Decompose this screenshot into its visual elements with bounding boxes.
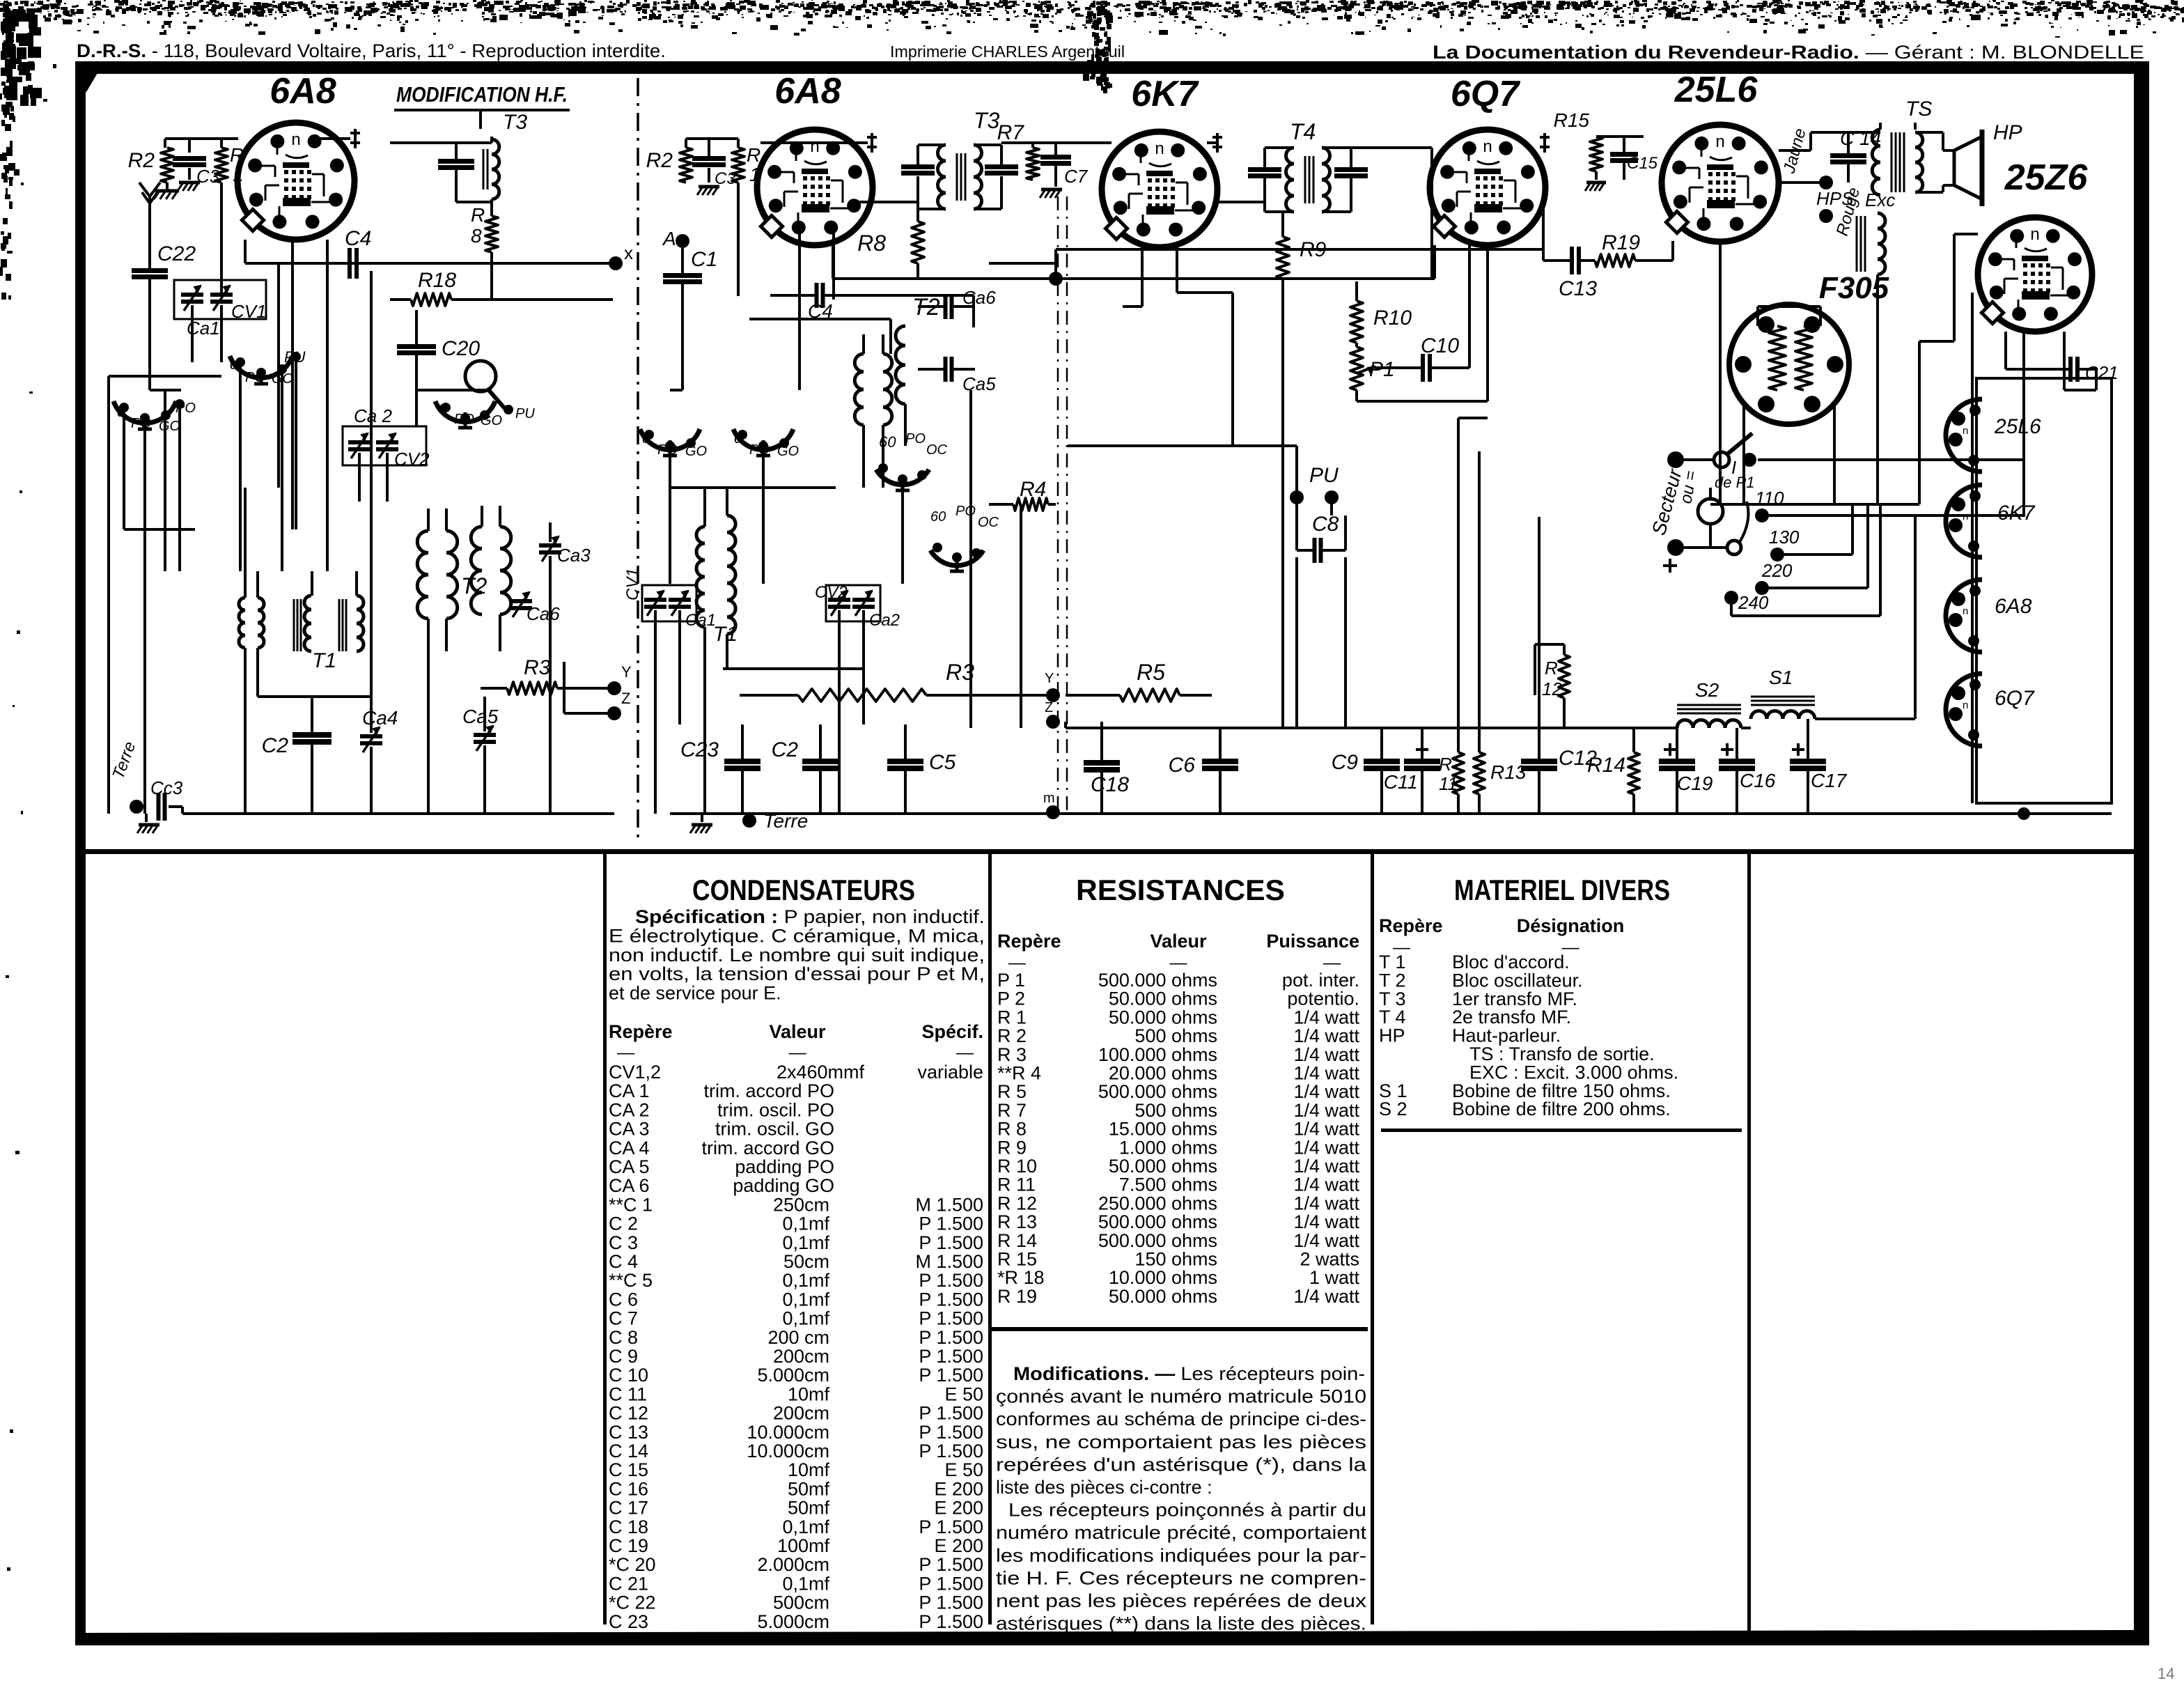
svg-text:P 1.500: P 1.500 <box>919 1308 983 1329</box>
heater tick node (modif 6A8) <box>354 129 357 148</box>
svg-text:n: n <box>1715 132 1724 151</box>
svg-text:100mf: 100mf <box>777 1535 830 1556</box>
svg-text:—: — <box>617 1043 634 1062</box>
svg-text:CV2: CV2 <box>394 449 430 470</box>
svg-text:6K7: 6K7 <box>1131 74 1199 114</box>
svg-text:n: n <box>1963 605 1968 617</box>
bottom bus (main) <box>670 812 2112 815</box>
svg-text:MODIFICATION H.F.: MODIFICATION H.F. <box>396 82 568 107</box>
svg-text:T1: T1 <box>312 649 336 672</box>
svg-text:R 8: R 8 <box>997 1119 1027 1140</box>
svg-text:C23: C23 <box>680 738 719 761</box>
wire 6Q7 grid down <box>1468 245 1471 368</box>
svg-text:50mf: 50mf <box>788 1478 830 1499</box>
svg-text:et de service pour E.: et de service pour E. <box>609 983 781 1004</box>
wire under T2 <box>862 425 865 488</box>
tube U1m 6A8 (modification) <box>237 123 354 240</box>
svg-text:P 1.500: P 1.500 <box>919 1422 983 1443</box>
svg-text:HP: HP <box>1993 121 2022 144</box>
svg-text:PO: PO <box>905 431 926 447</box>
wire antenna to switch <box>670 389 682 391</box>
svg-text:n: n <box>1963 425 1968 437</box>
dash-dot chassis line B <box>1066 196 1068 811</box>
svg-text:D.-R.-S. - 118, Boulevard Volt: D.-R.-S. - 118, Boulevard Voltaire, Pari… <box>77 40 666 61</box>
capacitor T4 left <box>1248 167 1281 172</box>
svg-text:220: 220 <box>1761 560 1793 581</box>
svg-text:Spécif.: Spécif. <box>921 1021 983 1042</box>
svg-text:Ca 2: Ca 2 <box>354 405 392 426</box>
svg-text:50.000 ohms: 50.000 ohms <box>1109 1156 1217 1177</box>
divider between schematic and parts list <box>78 849 2134 854</box>
wire anode feed y374 <box>1056 248 1543 251</box>
capacitor T4 right <box>1334 167 1368 172</box>
trimmer Ca2 with CV2 <box>343 426 426 465</box>
svg-text:trim. oscil. GO: trim. oscil. GO <box>715 1119 834 1140</box>
table rule left of CONDENSATEURS <box>603 854 607 1624</box>
svg-text:C15: C15 <box>1627 154 1658 173</box>
svg-text:50.000 ohms: 50.000 ohms <box>1109 1007 1217 1027</box>
tube U2 6K7 <box>1102 132 1217 247</box>
panel heater line <box>1971 378 1974 803</box>
svg-text:C7: C7 <box>1064 166 1089 187</box>
wire 6Q7 cathode long drops <box>1457 418 1460 752</box>
svg-text:R: R <box>230 144 244 166</box>
svg-text:RESISTANCES: RESISTANCES <box>1076 874 1285 906</box>
svg-text:La Documentation du Revendeur-: La Documentation du Revendeur-Radio. — G… <box>1433 42 2144 63</box>
svg-text:130: 130 <box>1769 527 1800 548</box>
wire R15 top <box>1596 135 1644 138</box>
svg-text:C 14: C 14 <box>609 1441 648 1461</box>
svg-text:CA 4: CA 4 <box>609 1138 650 1158</box>
svg-text:sus, ne comportaient pas les p: sus, ne comportaient pas les pièces <box>996 1432 1366 1452</box>
capacitor C21 <box>2068 357 2073 382</box>
svg-text:C 6: C 6 <box>609 1289 638 1310</box>
wire grid bus top (modif) <box>165 137 238 140</box>
wire R8 bottom <box>490 252 493 300</box>
svg-text:200 cm: 200 cm <box>767 1327 829 1348</box>
wire coupling run y458 <box>749 318 891 320</box>
svg-text:R 15: R 15 <box>997 1249 1037 1270</box>
svg-text:Ca6: Ca6 <box>526 603 560 624</box>
svg-text:C 7: C 7 <box>609 1308 638 1329</box>
dash-dot chassis line A <box>1057 196 1059 811</box>
svg-text:C 9: C 9 <box>609 1346 638 1367</box>
svg-text:E 200: E 200 <box>934 1478 983 1499</box>
svg-text:repérées d'un astérisque (*),: repérées d'un astérisque (*), dans la <box>996 1454 1367 1475</box>
svg-text:C2: C2 <box>262 734 289 757</box>
svg-text:200cm: 200cm <box>773 1403 829 1424</box>
tube U4 25L6 <box>1662 125 1779 242</box>
node x <box>609 256 623 270</box>
svg-text:15.000 ohms: 15.000 ohms <box>1109 1119 1217 1140</box>
svg-text:6A8: 6A8 <box>774 71 841 111</box>
svg-text:R13: R13 <box>1490 761 1527 783</box>
wire TS secondary to speaker <box>1915 131 1943 134</box>
svg-text:CONDENSATEURS: CONDENSATEURS <box>692 874 915 906</box>
svg-text:HP: HP <box>1379 1025 1405 1046</box>
wire screen line to x node <box>245 262 613 265</box>
svg-text:500.000 ohms: 500.000 ohms <box>1098 1081 1217 1102</box>
wire horizontal runs (modif) <box>109 375 221 378</box>
wire 25Z6 outputs <box>2004 332 2007 369</box>
svg-text:P 1.500: P 1.500 <box>919 1592 983 1613</box>
capacitor C11 electrolytic <box>1416 748 1428 751</box>
oscillator coil pair (modif) <box>239 598 245 648</box>
wire 25L6 plate to TS <box>1779 149 1811 152</box>
svg-text:Exc: Exc <box>1865 189 1895 210</box>
svg-text:C 3: C 3 <box>609 1232 638 1253</box>
svg-text:C 11: C 11 <box>609 1383 647 1404</box>
svg-text:25L6: 25L6 <box>1994 415 2041 438</box>
svg-text:padding GO: padding GO <box>733 1175 834 1196</box>
svg-text:P 1.500: P 1.500 <box>919 1213 983 1234</box>
svg-text:C6: C6 <box>1169 754 1196 777</box>
svg-text:1/4 watt: 1/4 watt <box>1293 1156 1359 1177</box>
svg-text:6A8: 6A8 <box>270 71 336 111</box>
antenna node A <box>676 234 689 248</box>
svg-text:6A8: 6A8 <box>1995 595 2032 618</box>
svg-text:T3: T3 <box>503 111 527 134</box>
node Y (main) <box>1046 688 1060 702</box>
svg-text:C8: C8 <box>1312 513 1339 536</box>
svg-text:R10: R10 <box>1373 307 1412 329</box>
svg-text:Ca4: Ca4 <box>362 707 398 729</box>
svg-text:1/4 watt: 1/4 watt <box>1293 1174 1359 1195</box>
capacitor C12 <box>1521 759 1557 764</box>
tube U5 25Z6 rectifier <box>1978 217 2092 332</box>
svg-text:R 7: R 7 <box>997 1100 1027 1121</box>
svg-text:n: n <box>1483 137 1492 156</box>
mains switch blade <box>1727 541 1741 554</box>
svg-text:T2: T2 <box>461 573 487 598</box>
capacitor T3 right <box>985 164 1018 169</box>
svg-text:2 watts: 2 watts <box>1300 1249 1359 1270</box>
svg-text:pot. inter.: pot. inter. <box>1282 970 1359 991</box>
resistor R13 <box>1474 752 1485 794</box>
svg-text:Imprimerie CHARLES Argenteuil: Imprimerie CHARLES Argenteuil <box>890 42 1125 61</box>
wire R7/C7 top <box>1001 141 1111 144</box>
resistor R2 (main) <box>680 148 692 183</box>
bottom bus (modif) <box>182 812 614 815</box>
svg-text:R 11: R 11 <box>997 1174 1036 1195</box>
svg-text:C9: C9 <box>1332 751 1359 774</box>
capacitor C7 <box>1040 155 1071 160</box>
table rule RESISTANCES/MATERIEL <box>1371 854 1374 1624</box>
transformer T2 (modif) <box>417 531 428 619</box>
svg-text:Les récepteurs poinçonnés à pa: Les récepteurs poinçonnés à partir du <box>1008 1500 1366 1521</box>
svg-text:P 1.500: P 1.500 <box>919 1270 983 1291</box>
svg-text:P 1: P 1 <box>997 970 1025 991</box>
svg-text:1/4 watt: 1/4 watt <box>1293 1230 1359 1251</box>
svg-text:P 1.500: P 1.500 <box>919 1554 983 1575</box>
svg-text:1/4 watt: 1/4 watt <box>1293 1119 1359 1140</box>
svg-text:1/4 watt: 1/4 watt <box>1293 1193 1359 1213</box>
svg-text:1 watt: 1 watt <box>1309 1267 1360 1288</box>
wire heater chain right <box>1971 293 1974 378</box>
svg-text:P 1.500: P 1.500 <box>919 1403 983 1424</box>
svg-text:0,1mf: 0,1mf <box>782 1213 829 1234</box>
svg-text:R8: R8 <box>857 231 886 256</box>
wire exc down <box>1876 274 1879 504</box>
svg-text:0,1mf: 0,1mf <box>782 1270 829 1291</box>
svg-text:**C 5: **C 5 <box>609 1270 653 1291</box>
svg-text:P 1.500: P 1.500 <box>919 1232 983 1253</box>
svg-text:500.000 ohms: 500.000 ohms <box>1098 1211 1217 1232</box>
svg-text:C 23: C 23 <box>609 1611 648 1632</box>
plus terminal <box>1667 539 1684 556</box>
socket 6A8 (panel) <box>1946 580 1982 652</box>
svg-text:CV1: CV1 <box>623 568 642 600</box>
svg-text:10mf: 10mf <box>788 1459 830 1480</box>
svg-text:0,1mf: 0,1mf <box>782 1289 829 1310</box>
svg-text:potentio.: potentio. <box>1287 988 1359 1009</box>
svg-text:C 2: C 2 <box>609 1213 638 1234</box>
pilot fuse circle <box>1698 499 1723 524</box>
resistor R8 (modif) <box>485 216 498 252</box>
wire R19 to 25L6 grid <box>1671 241 1674 261</box>
svg-text:1/4 watt: 1/4 watt <box>1293 1025 1359 1046</box>
capacitor C20 <box>397 344 436 349</box>
svg-text:Puissance: Puissance <box>1266 931 1359 952</box>
svg-text:6Q7: 6Q7 <box>1451 74 1520 114</box>
svg-text:Terre: Terre <box>109 739 139 782</box>
svg-text:OC: OC <box>978 515 999 530</box>
mains wires vertical <box>1851 504 1854 554</box>
wire bus y1045 <box>1066 727 1677 729</box>
svg-text:1/4 watt: 1/4 watt <box>1293 1211 1359 1232</box>
svg-text:T3: T3 <box>974 108 1000 133</box>
svg-text:R 2: R 2 <box>997 1025 1027 1046</box>
capacitor C17 electrolytic <box>1792 748 1804 751</box>
antenna (modif) <box>148 196 151 216</box>
svg-text:M 1.500: M 1.500 <box>915 1251 983 1272</box>
wire top pin leads <box>164 139 166 148</box>
svg-text:Ca2: Ca2 <box>869 611 900 630</box>
wire CV1 leads <box>191 305 194 327</box>
right panel box <box>1976 378 2112 803</box>
svg-text:MATERIEL DIVERS: MATERIEL DIVERS <box>1454 874 1670 906</box>
wire R1 down <box>737 183 740 296</box>
svg-text:R 1: R 1 <box>997 1007 1027 1027</box>
wire T3 top <box>390 141 492 144</box>
svg-text:0,1mf: 0,1mf <box>782 1573 829 1594</box>
svg-text:1: 1 <box>233 164 244 185</box>
svg-text:C10: C10 <box>1421 334 1459 357</box>
svg-text:C 8: C 8 <box>609 1327 638 1348</box>
svg-text:n: n <box>810 137 819 156</box>
svg-text:R5: R5 <box>1137 660 1165 685</box>
trimmer Ca6 (modif) <box>510 599 532 603</box>
heater tick 6A8 <box>871 133 873 153</box>
svg-text:2x460mmf: 2x460mmf <box>777 1062 865 1083</box>
svg-text:0,1mf: 0,1mf <box>782 1308 829 1329</box>
svg-text:150 ohms: 150 ohms <box>1134 1249 1217 1270</box>
svg-text:R7: R7 <box>997 121 1025 144</box>
svg-text:1/4 watt: 1/4 watt <box>1293 1100 1359 1121</box>
svg-text:10.000 ohms: 10.000 ohms <box>1109 1267 1217 1288</box>
heater tick 6K7 <box>1216 133 1219 153</box>
svg-text:en volts, la tension d'essai p: en volts, la tension d'essai pour P et M… <box>609 963 985 984</box>
resistor R1 (modif) <box>215 148 228 183</box>
svg-text:C2: C2 <box>772 738 799 761</box>
variable capacitor CV1 with trimmer Ca1 <box>174 280 266 319</box>
svg-text:T4: T4 <box>1290 119 1316 144</box>
wire plate 6Q7 to C13 <box>1542 202 1545 261</box>
tuning gang CV1 (main) <box>642 585 696 621</box>
svg-text:CA 5: CA 5 <box>609 1156 650 1177</box>
svg-text:conformes au schéma de princip: conformes au schéma de principe ci-des- <box>996 1409 1366 1429</box>
capacitor C3 (main) <box>692 156 726 161</box>
svg-text:C 21: C 21 <box>609 1573 648 1594</box>
resistor R1 (main) <box>732 148 744 183</box>
svg-text:n: n <box>2030 225 2039 244</box>
svg-text:R: R <box>1439 754 1452 775</box>
svg-text:R 13: R 13 <box>997 1211 1037 1232</box>
capacitor C5 <box>887 759 923 764</box>
rule under RESISTANCES list <box>992 1327 1368 1331</box>
tuning gang CV2 (main) <box>826 585 880 621</box>
svg-text:C3: C3 <box>196 166 220 187</box>
svg-text:E 50: E 50 <box>944 1383 983 1404</box>
svg-text:C 12: C 12 <box>609 1403 648 1424</box>
svg-text:6Q7: 6Q7 <box>1995 687 2035 710</box>
svg-text:C 10: C 10 <box>609 1365 648 1386</box>
svg-text:Ca6: Ca6 <box>962 287 996 308</box>
svg-text:25L6: 25L6 <box>1674 70 1758 110</box>
resistor R2 (modif) <box>161 148 173 183</box>
svg-text:C20: C20 <box>442 337 480 360</box>
wire 6K7 plate to T4 <box>1217 201 1265 203</box>
node Z (main) <box>1046 715 1060 729</box>
svg-text:R15: R15 <box>1554 109 1590 131</box>
wire long verticals under tube (modif) <box>277 263 280 488</box>
svg-text:500.000 ohms: 500.000 ohms <box>1098 1230 1217 1251</box>
svg-text:1: 1 <box>749 164 760 185</box>
table rule CONDENSATEURS/RESISTANCES <box>988 854 992 1624</box>
svg-text:n: n <box>1963 699 1968 711</box>
svg-text:0,1mf: 0,1mf <box>782 1232 829 1253</box>
svg-text:S1: S1 <box>1769 667 1793 688</box>
svg-text:P 1.500: P 1.500 <box>919 1327 983 1348</box>
wire 6A8 plate to T3 <box>858 201 918 203</box>
svg-text:1/4 watt: 1/4 watt <box>1293 1286 1359 1307</box>
svg-text:Repère: Repère <box>609 1021 673 1042</box>
wire PU feed from chassis line <box>1068 444 1233 447</box>
svg-text:R14: R14 <box>1587 754 1625 777</box>
svg-text:20.000 ohms: 20.000 ohms <box>1109 1063 1217 1084</box>
svg-text:1/4 watt: 1/4 watt <box>1293 1063 1359 1084</box>
svg-text:m: m <box>1043 791 1055 806</box>
svg-text:P 1.500: P 1.500 <box>919 1573 983 1594</box>
ground on bottom bus (modif) <box>145 814 148 822</box>
svg-text:Y: Y <box>621 663 632 681</box>
rule under MATERIEL list <box>1381 1129 1742 1132</box>
svg-text:0,1mf: 0,1mf <box>782 1517 829 1537</box>
power switch de P1 <box>1667 451 1684 468</box>
trimmer Ca6 (main) <box>944 294 948 319</box>
svg-text:numéro matricule précité, comp: numéro matricule précité, comportaient <box>996 1522 1367 1543</box>
capacitor C19 electrolytic <box>1664 748 1676 751</box>
svg-text:—: — <box>789 1043 806 1062</box>
svg-text:Modifications. — Les récepteur: Modifications. — Les récepteurs poin- <box>1013 1363 1365 1384</box>
capacitor C18 <box>1084 760 1120 766</box>
svg-text:R2: R2 <box>128 149 155 172</box>
svg-text:liste des pièces ci-contre :: liste des pièces ci-contre : <box>996 1477 1212 1498</box>
svg-text:2.000cm: 2.000cm <box>757 1554 829 1575</box>
section divider dash-dot line <box>637 78 639 839</box>
svg-text:P 1.500: P 1.500 <box>919 1365 983 1386</box>
svg-text:C18: C18 <box>1091 773 1129 796</box>
wire horizontal y700 cluster <box>670 486 836 489</box>
heater tick 6Q7 <box>1543 133 1546 153</box>
svg-text:astérisques (**) dans la liste: astérisques (**) dans la liste des pièce… <box>996 1613 1366 1634</box>
svg-text:P 1.500: P 1.500 <box>919 1517 983 1537</box>
svg-text:50.000 ohms: 50.000 ohms <box>1109 988 1217 1009</box>
svg-text:R 10: R 10 <box>997 1156 1037 1177</box>
svg-text:*C 22: *C 22 <box>609 1592 656 1613</box>
wire 25Z6 top feed <box>1954 233 1978 235</box>
svg-text:variable: variable <box>917 1062 983 1083</box>
svg-text:7.500 ohms: 7.500 ohms <box>1119 1174 1217 1195</box>
node Z (modif) <box>607 706 621 720</box>
svg-text:60: 60 <box>930 509 946 525</box>
svg-text:1/4 watt: 1/4 watt <box>1293 1007 1359 1027</box>
wire R18 to dashed margin <box>492 298 613 301</box>
svg-text:non inductif. Le nombre qui su: non inductif. Le nombre qui suit indique… <box>609 945 985 965</box>
output transformer TS <box>1872 130 1880 195</box>
svg-text:1/4 watt: 1/4 watt <box>1293 1137 1359 1158</box>
svg-text:Repère: Repère <box>1379 915 1443 936</box>
transformer T1 (modif) <box>293 599 295 651</box>
svg-text:E 50: E 50 <box>944 1459 983 1480</box>
wire exc bus horizontal <box>1710 503 1919 506</box>
svg-text:P 2: P 2 <box>997 988 1025 1009</box>
wire T4 to 6Q7 area <box>1351 146 1432 149</box>
svg-text:PO: PO <box>955 504 976 519</box>
svg-text:250cm: 250cm <box>773 1194 829 1215</box>
wire 25L6 cathode down <box>1719 242 1722 504</box>
table rule right of MATERIEL <box>1747 854 1751 1634</box>
svg-text:PU: PU <box>1309 464 1339 487</box>
svg-text:250.000 ohms: 250.000 ohms <box>1098 1193 1217 1213</box>
svg-text:Valeur: Valeur <box>1150 931 1207 952</box>
svg-text:R18: R18 <box>418 269 456 292</box>
svg-text:C19: C19 <box>1677 773 1713 794</box>
capacitor C3 (modif) <box>173 156 206 161</box>
svg-text:60: 60 <box>879 433 896 451</box>
svg-text:R: R <box>471 204 485 226</box>
svg-text:C4: C4 <box>345 227 371 250</box>
svg-text:240: 240 <box>1738 592 1769 613</box>
svg-text:10.000cm: 10.000cm <box>747 1441 829 1461</box>
wire screen bus y400 <box>832 245 834 279</box>
socket 6Q7 (panel) <box>1946 674 1982 746</box>
capacitor T3 left <box>901 164 935 169</box>
svg-text:C 18: C 18 <box>609 1517 648 1537</box>
svg-text:C21: C21 <box>2085 362 2119 383</box>
wire 6K7 column down <box>1141 245 1144 307</box>
svg-text:Z: Z <box>621 690 630 707</box>
svg-text:C1: C1 <box>691 248 717 271</box>
svg-text:E électrolytique. C céramique,: E électrolytique. C céramique, M mica, <box>609 925 985 946</box>
svg-text:5.000cm: 5.000cm <box>757 1611 829 1632</box>
svg-text:14: 14 <box>2158 1665 2174 1682</box>
svg-text:50mf: 50mf <box>788 1498 830 1519</box>
svg-text:les modifications indiquées po: les modifications indiquées pour la par- <box>996 1545 1366 1566</box>
trimmer Ca3 <box>539 543 561 548</box>
svg-text:R 5: R 5 <box>997 1081 1027 1102</box>
svg-text:500.000 ohms: 500.000 ohms <box>1098 970 1217 991</box>
